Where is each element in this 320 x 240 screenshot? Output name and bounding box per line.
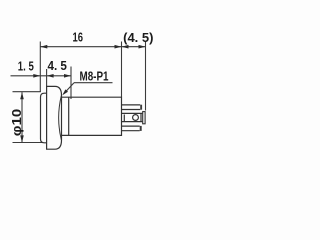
arrowhead (4.5) left (bowtie right) <box>122 45 129 49</box>
ext line right of (4.5) <box>145 42 147 111</box>
arrowhead 4.5 right <box>64 74 71 78</box>
svg-text:(4. 5): (4. 5) <box>123 30 153 45</box>
svg-text:4. 5: 4. 5 <box>47 58 67 73</box>
hex nut chamfer arc <box>59 96 62 140</box>
phi10 bottom ext line <box>13 142 43 144</box>
arrowhead 16 right (bowtie left) <box>115 45 122 49</box>
tab middle fold line <box>123 115 125 122</box>
ext line shared 16/(4.5) <box>121 42 123 98</box>
leader underline M8-P1 <box>74 82 113 84</box>
ext line flange front <box>46 69 48 87</box>
dim line 1.5 / 4.5 <box>11 75 72 77</box>
tab middle end line <box>140 113 142 121</box>
hex flange <box>47 86 62 149</box>
thread/washer line <box>68 97 70 135</box>
tab top end bar <box>140 105 142 110</box>
arrowhead 4.5 left <box>47 74 54 78</box>
terminal tab bottom <box>122 126 140 131</box>
arrowhead leader M8-P1 <box>62 89 68 95</box>
tab bottom end bar <box>140 126 142 131</box>
arrowhead 16 left <box>40 45 47 49</box>
lens (front cap) <box>41 93 47 143</box>
arrowhead 1.5 <box>33 74 40 78</box>
phi10 dim line <box>21 92 23 142</box>
svg-text:M8-P1: M8-P1 <box>80 68 109 83</box>
dim line 16 / (4.5) <box>40 46 145 48</box>
tab middle hole <box>133 115 139 121</box>
ext line left of 16 dim <box>39 42 41 93</box>
arrowhead (4.5) right <box>139 45 146 49</box>
arrowhead phi10 top <box>20 92 24 99</box>
barrel body <box>62 97 122 135</box>
leader diagonal <box>64 83 75 94</box>
terminal tab middle <box>122 113 143 121</box>
ext line thread start <box>70 67 72 100</box>
svg-text:1. 5: 1. 5 <box>18 58 34 73</box>
svg-text:φ10: φ10 <box>9 109 24 137</box>
arrowhead phi10 bottom <box>20 135 24 142</box>
svg-text:16: 16 <box>73 31 84 45</box>
phi10 top ext line <box>13 91 41 93</box>
tab middle end cap <box>143 112 145 124</box>
terminal tab top <box>122 105 141 110</box>
